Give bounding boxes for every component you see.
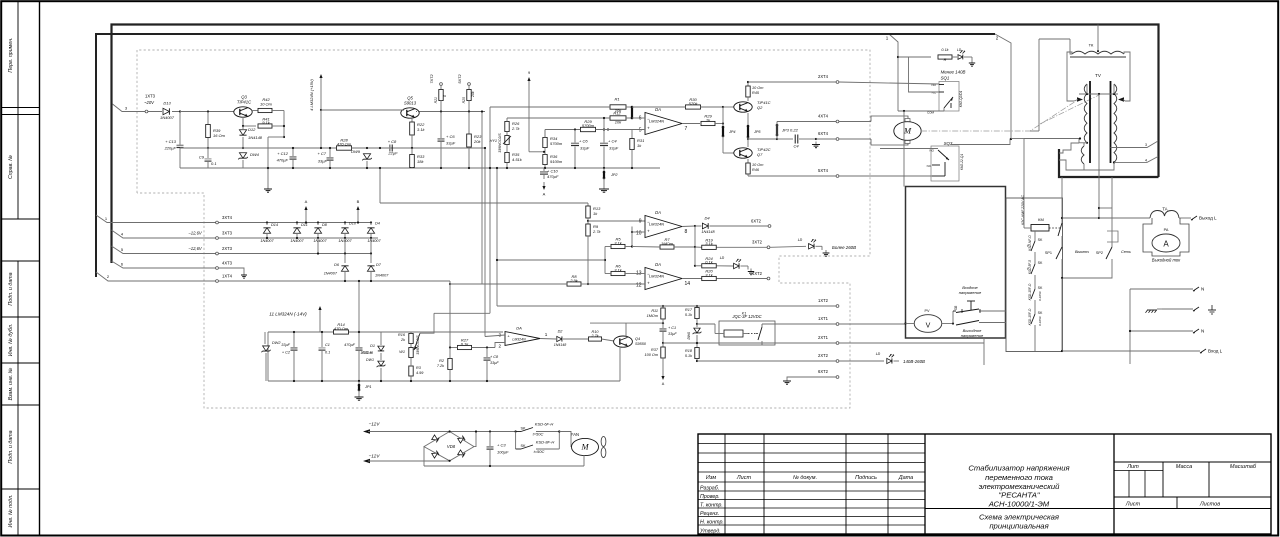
svg-text:R18: R18 — [685, 349, 693, 353]
top rail lower section — [268, 331, 503, 333]
svg-text:Инв. № подл.: Инв. № подл. — [8, 495, 14, 528]
svg-text:D14: D14 — [271, 223, 278, 227]
svg-text:DW9: DW9 — [351, 149, 361, 154]
svg-text:Подпись: Подпись — [855, 475, 877, 481]
zener DW2 — [264, 332, 266, 344]
svg-text:100 Om: 100 Om — [644, 353, 658, 357]
title block frame — [698, 434, 1271, 534]
net A arrow above D11 — [305, 209, 307, 215]
svg-text:5700m: 5700m — [550, 141, 563, 146]
svg-text:4: 4 — [1145, 159, 1147, 163]
terminal 6XT4 — [836, 138, 839, 141]
capacitor C11 470uF — [358, 332, 360, 347]
wiper feed wire — [420, 313, 434, 333]
svg-text:18k: 18k — [417, 159, 424, 164]
wire 5XT4 — [748, 175, 836, 177]
svg-text:SK: SK — [520, 444, 526, 448]
svg-text:DA: DA — [655, 262, 661, 267]
bridge diode top-right — [458, 436, 465, 443]
svg-text:Схема электрическая: Схема электрическая — [979, 513, 1059, 522]
svg-text:D12: D12 — [248, 127, 256, 132]
svg-text:Лист: Лист — [736, 475, 752, 481]
svg-text:4ХТ2: 4ХТ2 — [752, 271, 763, 276]
svg-text:20k: 20k — [473, 139, 481, 144]
dashed pcb outline main — [137, 50, 870, 408]
enclosure 2 continuation to wire-2 chamfer — [889, 33, 995, 35]
resistor R19 3.1k — [695, 246, 702, 248]
Q4 emitter wire — [619, 347, 621, 382]
svg-text:3.1k: 3.1k — [417, 127, 426, 132]
svg-text:+ C6: + C6 — [446, 134, 455, 139]
svg-text:4.51k: 4.51k — [512, 157, 523, 162]
svg-text:22µF: 22µF — [387, 151, 398, 156]
resistor R13 1k — [586, 206, 590, 218]
net B arrow above D10 — [357, 209, 359, 215]
diode D13 1N4007 — [151, 111, 162, 113]
PV meter box — [906, 187, 1006, 339]
svg-text:−: − — [647, 116, 650, 121]
svg-text:R25: R25 — [462, 97, 466, 103]
earth symbol right — [1211, 305, 1213, 310]
op-amp U2 LM324N pins 9 10 8 — [645, 216, 682, 238]
wire x1024 down — [1023, 139, 1025, 229]
svg-text:KSD-6F-H: KSD-6F-H — [535, 422, 554, 427]
wire 2XT1 — [761, 343, 763, 345]
svg-text:+ C13: + C13 — [165, 139, 177, 144]
SQ3 blade — [938, 150, 949, 160]
svg-text:1MOm: 1MOm — [647, 314, 658, 318]
svg-text:1N4007: 1N4007 — [375, 274, 389, 278]
thermal switch chain SK1 — [1034, 231, 1036, 241]
svg-text:K1: K1 — [742, 312, 746, 316]
TV left winding — [1084, 84, 1087, 143]
svg-text:5ХТ2: 5ХТ2 — [457, 74, 462, 84]
capacitor C8 22uF — [379, 147, 381, 149]
op-amp U4 LM324N pins 3 2 1 — [505, 332, 540, 346]
wire 4XT4 — [776, 122, 778, 140]
SQ1 NC stub — [939, 91, 944, 93]
wire R41-C12 node down — [268, 136, 284, 138]
svg-text:KSD-15F-O: KSD-15F-O — [1028, 283, 1032, 300]
terminal 5XT4 — [836, 175, 839, 178]
svg-text:R16: R16 — [398, 333, 406, 337]
wire 1XT2 — [497, 305, 836, 307]
svg-text:R11: R11 — [651, 309, 658, 313]
svg-text:Утверд.: Утверд. — [700, 528, 721, 534]
svg-text:3ХТ4: 3ХТ4 — [222, 215, 233, 220]
svg-text:−12V: −12V — [369, 454, 381, 459]
svg-text:N: N — [1201, 287, 1204, 292]
zener DW1 — [380, 353, 382, 360]
bridge rectifier VD8 — [424, 432, 474, 461]
fan wire to motor — [559, 432, 571, 448]
left lower winding jog — [1059, 160, 1084, 170]
mechanical link dash-dot — [921, 101, 1076, 131]
svg-text:−: − — [647, 271, 650, 276]
svg-text:0.1: 0.1 — [325, 351, 330, 355]
svg-text:2.7k: 2.7k — [590, 334, 599, 338]
svg-text:KSD-NF-O: KSD-NF-O — [1028, 235, 1032, 251]
svg-text:PV: PV — [924, 309, 930, 313]
U1 pin5 feed — [596, 129, 646, 131]
svg-text:3.1k: 3.1k — [705, 272, 714, 277]
fan motor bottom link — [583, 455, 585, 466]
thermal switch chain SK2 — [1034, 252, 1036, 264]
diode D11 1N4007 with net A — [296, 221, 298, 223]
wire x1062 to input — [1061, 278, 1063, 351]
svg-text:339WOO2/S: 339WOO2/S — [498, 133, 502, 153]
svg-text:220µF: 220µF — [164, 146, 177, 151]
SQ3 NO stub — [880, 148, 938, 150]
svg-text:−12V: −12V — [369, 422, 381, 427]
svg-text:9: 9 — [639, 218, 642, 224]
jumper JP1 ground — [358, 380, 360, 382]
svg-text:JP1: JP1 — [364, 385, 372, 389]
svg-text:339WOO2/S: 339WOO2/S — [416, 335, 420, 355]
wire x1011 to junction — [1010, 138, 1012, 140]
svg-text:R12: R12 — [613, 111, 621, 116]
svg-text:R17: R17 — [685, 308, 693, 312]
op-amp U1 LM324N pins 6 5 7 — [645, 113, 682, 135]
resistor R29 5700m — [581, 127, 596, 131]
wire after R28 — [352, 147, 486, 149]
svg-text:0: 0 — [443, 95, 447, 97]
wire 6 entry — [112, 261, 218, 268]
svg-text:2ХТ2: 2ХТ2 — [818, 353, 829, 358]
svg-text:7: 7 — [685, 126, 688, 132]
svg-text:JP2: JP2 — [610, 173, 618, 177]
svg-text:4ХТ3: 4ХТ3 — [222, 261, 233, 266]
resistor R42 10 Om — [251, 110, 258, 112]
svg-text:Масса: Масса — [1176, 464, 1193, 470]
resistor R7 1MOm — [660, 245, 674, 249]
wire to Q2 base — [723, 106, 736, 108]
resistor R24 0.1k — [694, 247, 696, 266]
svg-text:Подп. и дата: Подп. и дата — [8, 430, 14, 463]
U4 pin3 feed from bundle — [485, 335, 505, 337]
resistor R22 3.1k — [411, 119, 413, 122]
svg-text:9: 9 — [528, 71, 530, 75]
svg-text:1N4148: 1N4148 — [248, 135, 263, 140]
U4 pin2 feed jog — [495, 343, 505, 348]
KM coil left wire — [1024, 227, 1031, 229]
svg-text:5ХТ4: 5ХТ4 — [818, 168, 829, 173]
bridge left corner drop — [423, 447, 425, 466]
terminal 4XT4 — [836, 120, 839, 123]
svg-text:570k: 570k — [689, 101, 699, 106]
svg-text:DW2: DW2 — [272, 341, 281, 345]
capacitor C3 100uF — [489, 430, 491, 432]
resistor R27 0.1k — [458, 345, 472, 349]
SB upper contact — [952, 311, 954, 324]
svg-text:470µF: 470µF — [344, 343, 356, 347]
svg-text:LM324N: LM324N — [649, 221, 664, 226]
svg-text:SK: SK — [1038, 261, 1043, 265]
jumper JP3 — [776, 122, 778, 125]
svg-text:1N4148: 1N4148 — [701, 230, 715, 234]
svg-text:принципиальная: принципиальная — [989, 522, 1048, 531]
svg-text:470µF: 470µF — [277, 158, 289, 163]
svg-text:DW6: DW6 — [687, 332, 691, 340]
diode D7 1N4007 — [370, 254, 372, 264]
svg-text:JP4: JP4 — [728, 130, 736, 134]
terminal 2XT4 — [836, 81, 839, 84]
LED LD2 — [717, 265, 734, 267]
svg-text:+ C1: + C1 — [668, 326, 676, 330]
terminal 4XT3 — [216, 267, 219, 270]
resistor R30 570k — [686, 105, 701, 109]
bottom rail y=168 — [180, 167, 660, 169]
svg-text:R: R — [944, 58, 947, 62]
svg-text:M: M — [580, 442, 589, 452]
left lower winding — [1081, 146, 1084, 164]
svg-text:R21: R21 — [434, 97, 438, 103]
svg-text:3.1k: 3.1k — [614, 240, 623, 245]
svg-text:+: + — [647, 126, 650, 131]
thermal switch KSD-8F-H — [515, 432, 517, 450]
transistor Q3 TIP41C — [234, 107, 252, 117]
limit switch SQ3 box — [931, 146, 959, 181]
KM contactor box — [1006, 198, 1063, 352]
svg-text:2.7k: 2.7k — [592, 229, 602, 234]
TV left winding bottom — [1086, 142, 1088, 144]
resistor R34 5700m — [543, 138, 547, 148]
svg-text:LD: LD — [798, 238, 803, 242]
svg-text:1MOm: 1MOm — [661, 241, 674, 246]
svg-text:0.1k: 0.1k — [461, 341, 470, 346]
zener DW4 — [239, 153, 246, 158]
svg-text:напряжение: напряжение — [959, 290, 982, 295]
svg-text:LM324N: LM324N — [649, 273, 664, 278]
svg-text:A: A — [662, 382, 665, 386]
svg-text:C1: C1 — [325, 343, 330, 347]
N output wire 1 — [1130, 288, 1193, 290]
resistor R26 2.7k — [505, 122, 509, 132]
svg-text:FAN: FAN — [571, 432, 579, 437]
diode D4 1N4148 — [682, 225, 695, 228]
wire x1039 low join — [1030, 130, 1039, 132]
transistor Q5 S9013 — [401, 108, 419, 118]
KM contact dashed link — [1049, 227, 1060, 229]
svg-text:2ХТ3: 2ХТ3 — [222, 246, 233, 251]
TK top tap — [1097, 50, 1099, 52]
svg-text:W1: W1 — [399, 350, 405, 354]
svg-text:HY1: HY1 — [490, 139, 497, 143]
svg-text:Листов: Листов — [1199, 502, 1220, 508]
resistor R16 2k — [409, 334, 413, 344]
enclosure 2 wire-1 chamfer drop — [889, 34, 898, 111]
wire 6XT4 emitter line — [748, 138, 776, 140]
arrow 9 net — [528, 80, 530, 86]
resistor R36 9100m — [543, 155, 547, 165]
node after D13 — [179, 110, 181, 112]
diode D6 1N4007 — [344, 254, 346, 264]
terminal 1XT2 — [836, 305, 839, 308]
wire 2XT4 — [747, 81, 749, 83]
resistor R8 2.9k — [567, 282, 581, 286]
svg-text:LM324N: LM324N — [649, 118, 664, 123]
svg-text:9100m: 9100m — [550, 159, 563, 164]
overload resistor R44 0.1k — [938, 55, 952, 59]
long wire y=203 to R13 — [380, 202, 588, 204]
svg-text:КМ: КМ — [1038, 217, 1044, 222]
svg-text:−12,6V: −12,6V — [188, 246, 203, 251]
svg-text:Q7: Q7 — [757, 152, 763, 157]
capacitor C6b 33uF — [574, 128, 576, 130]
svg-text:Лист: Лист — [1125, 502, 1141, 508]
terminal 1XT3 — [145, 110, 148, 113]
svg-text:33µF: 33µF — [668, 332, 677, 336]
thermal switch chain SK3 — [1034, 275, 1036, 289]
svg-text:1N4007: 1N4007 — [290, 239, 304, 243]
svg-text:Изм: Изм — [706, 475, 716, 481]
svg-text:+: + — [647, 281, 650, 286]
svg-text:10 Om: 10 Om — [752, 86, 763, 90]
svg-text:Стабилизатор напряжения: Стабилизатор напряжения — [968, 464, 1069, 473]
svg-text:470 Om: 470 Om — [337, 141, 352, 146]
svg-text:R37: R37 — [651, 348, 659, 352]
junction transformer center to KM area — [1098, 207, 1100, 209]
svg-text:JP3 0.22: JP3 0.22 — [781, 128, 799, 133]
ground below rail — [267, 168, 269, 186]
svg-text:1ХТ4: 1ХТ4 — [222, 274, 233, 279]
relay K1 JQC-3F 12VDC box — [719, 321, 775, 345]
resistor R10 2.7k — [589, 337, 602, 341]
resistor R20 3.1k — [682, 278, 702, 280]
svg-text:КМ2-Q2/D1: КМ2-Q2/D1 — [959, 90, 963, 107]
svg-text:V: V — [926, 323, 931, 330]
svg-text:470µF: 470µF — [547, 174, 559, 179]
svg-text:B: B — [357, 199, 360, 204]
svg-text:A: A — [305, 199, 308, 204]
transistor Q4 S9550 — [614, 336, 633, 347]
wire to Q7 base — [723, 152, 736, 154]
resistor R35 4.51k — [505, 153, 509, 163]
svg-text:Н. контр.: Н. контр. — [700, 520, 724, 526]
svg-text:Лит: Лит — [1126, 464, 1139, 470]
capacitor C13 220uF — [179, 112, 181, 146]
PV wires — [904, 322, 906, 324]
svg-text:Вход L: Вход L — [1208, 349, 1223, 354]
op-amp U1 output wire — [682, 123, 700, 125]
svg-text:SQ3: SQ3 — [944, 141, 953, 146]
tap 4 — [1114, 157, 1158, 163]
enclosure outline 2 (inner unit) — [96, 34, 889, 277]
svg-text:140В-260В: 140В-260В — [903, 359, 925, 364]
terminal 3XT3 — [216, 237, 219, 240]
svg-text:470 Om: 470 Om — [334, 326, 349, 331]
-12V arrow top — [363, 429, 370, 433]
svg-text:"РЕСАНТА": "РЕСАНТА" — [998, 490, 1041, 499]
bottom rail lower section — [268, 380, 620, 382]
U4 output — [540, 338, 556, 341]
svg-text:3: 3 — [1145, 143, 1147, 147]
title block rows left — [698, 443, 925, 445]
thermal switch KSD-6F-H — [515, 430, 517, 432]
resistor R46 10 Om — [747, 159, 749, 163]
wire left winding to left edge — [1024, 139, 1079, 144]
transformer box bottom — [1059, 149, 1159, 177]
jumper JP4 — [722, 126, 725, 129]
input wire Вход L — [1062, 350, 1200, 352]
svg-text:NO: NO — [932, 83, 937, 87]
svg-text:JP5: JP5 — [753, 130, 761, 134]
terminal Выход L — [1191, 216, 1197, 220]
diode D12 1N4148 — [242, 119, 244, 126]
diode D10 1N4007 with net B — [344, 221, 346, 223]
svg-text:2ХТ1: 2ХТ1 — [818, 335, 829, 340]
jumper JP5 emitter join — [747, 113, 749, 125]
svg-text:Справ. №: Справ. № — [8, 155, 14, 179]
feed from enclosure wire1 — [897, 56, 899, 58]
svg-text:3ХТ2: 3ХТ2 — [752, 240, 763, 245]
resistor R27k 1k — [701, 121, 715, 125]
relay contact — [761, 324, 763, 327]
TV winding top bar — [1079, 93, 1118, 95]
svg-text:Разраб.: Разраб. — [700, 485, 719, 491]
svg-text:РА: РА — [1164, 228, 1169, 232]
svg-text:№ докум.: № докум. — [793, 475, 817, 481]
svg-text:14: 14 — [685, 281, 691, 287]
LED overvoltage Более 260В — [809, 244, 814, 249]
svg-text:+: + — [647, 229, 650, 234]
R34 R36 mid tap wire — [529, 151, 544, 153]
svg-text:1N4007: 1N4007 — [324, 272, 338, 276]
transistor Q2 TIP41C — [734, 102, 752, 112]
svg-text:LD: LD — [957, 48, 962, 52]
resistor R37 100 Om — [662, 343, 664, 347]
svg-text:SK: SK — [1038, 238, 1043, 242]
svg-text:SK: SK — [1038, 286, 1043, 290]
fan motor — [572, 438, 599, 455]
lower winding bottom bar — [1084, 162, 1114, 170]
resistor R11 1MOm — [662, 306, 664, 308]
switch SP2 — [1111, 177, 1113, 247]
terminal 2XT3 — [216, 252, 219, 255]
svg-text:+ C2: + C2 — [282, 351, 291, 355]
diode D5 1N4007 — [370, 221, 372, 223]
svg-text:KSD-5F-5: KSD-5F-5 — [1028, 260, 1032, 274]
TV right winding — [1114, 84, 1117, 162]
KM coil — [1031, 225, 1049, 232]
tap 3 — [1111, 141, 1159, 148]
svg-text:LD: LD — [876, 352, 881, 356]
svg-text:C4: C4 — [793, 144, 799, 149]
resistor R1 10k — [610, 105, 626, 109]
svg-text:8: 8 — [685, 229, 688, 235]
svg-text:−12,6V: −12,6V — [188, 231, 203, 236]
svg-text:TV: TV — [1095, 73, 1101, 78]
SB lower contact — [956, 321, 979, 326]
KM contact — [1061, 177, 1063, 223]
Лит sub-cells — [1128, 471, 1130, 498]
SQ1 NO stub — [939, 84, 944, 86]
relay coil — [724, 330, 743, 337]
svg-text:6ХТ2: 6ХТ2 — [818, 369, 829, 374]
capacitor C1 33uF — [662, 323, 664, 328]
svg-text:6ХТ2: 6ХТ2 — [751, 219, 762, 224]
bundle joins lower section — [449, 283, 451, 285]
diode D1 1N4148 — [380, 332, 382, 345]
capacitor C12 470uF — [292, 148, 294, 156]
svg-text:33µF: 33µF — [609, 146, 619, 151]
resistor R28 470 Om — [337, 146, 352, 150]
svg-text:16 Om: 16 Om — [213, 133, 226, 138]
wire top rail y=111.5 — [180, 111, 237, 113]
svg-text:D11: D11 — [301, 223, 308, 227]
svg-text:NO: NO — [930, 149, 935, 153]
svg-text:+ C4: + C4 — [608, 139, 617, 144]
